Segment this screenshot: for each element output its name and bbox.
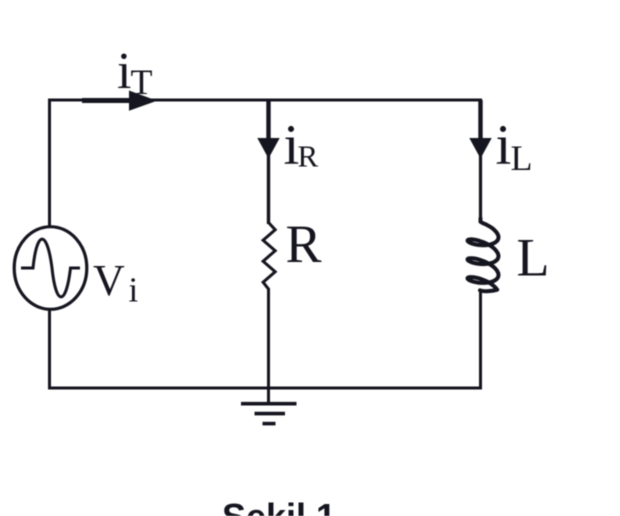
- svg-text:i: i: [496, 114, 512, 177]
- ground bar 2: [255, 412, 286, 416]
- wire right branch upper: [479, 100, 482, 219]
- resistor R zigzag: [263, 223, 275, 290]
- arrow iR shaft: [266, 100, 270, 140]
- arrow iR head: [257, 138, 279, 159]
- svg-text:R: R: [298, 139, 319, 174]
- svg-text:V: V: [93, 256, 125, 305]
- arrow iL head: [469, 138, 491, 159]
- svg-text:i: i: [129, 271, 139, 310]
- wire right branch lower: [479, 289, 482, 390]
- arrow iT head: [129, 91, 157, 111]
- ground stem: [267, 388, 270, 404]
- ground bar 3: [263, 422, 276, 426]
- source V1 ellipse: [14, 227, 87, 310]
- wire left vertical upper: [48, 99, 51, 228]
- wire middle branch lower: [267, 288, 270, 388]
- svg-text:i: i: [117, 43, 131, 100]
- arrow iT shaft: [82, 98, 132, 103]
- wire top horizontal: [48, 99, 482, 102]
- ground bar 1: [241, 402, 297, 406]
- inductor L coil: [468, 219, 499, 292]
- svg-text:L: L: [517, 228, 550, 288]
- svg-text:R: R: [286, 214, 322, 274]
- svg-text:T: T: [131, 62, 153, 102]
- svg-text:Şekil 1: Şekil 1: [222, 496, 336, 516]
- wire left vertical lower: [48, 309, 51, 390]
- wire bottom horizontal: [48, 387, 482, 390]
- svg-text:L: L: [511, 138, 533, 178]
- arrow iL shaft: [478, 100, 482, 140]
- wire middle branch upper: [267, 100, 270, 224]
- source V1 sine wave: [21, 239, 80, 297]
